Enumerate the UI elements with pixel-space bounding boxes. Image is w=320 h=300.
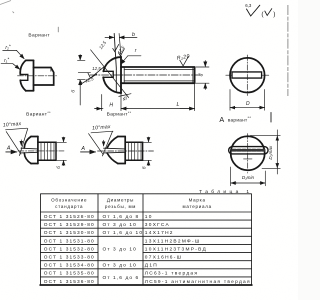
- slot rectangle: [232, 72, 262, 78]
- stub thread lines: [128, 142, 141, 160]
- col 2 rows: [103, 214, 144, 281]
- dimension b (slot width): [105, 36, 137, 38]
- stray tick: [57, 27, 59, 32]
- head front view after test (circle 2): [229, 130, 281, 186]
- r leader arrow: [121, 56, 128, 65]
- header underline: [41, 211, 252, 213]
- circle outline: [231, 136, 265, 170]
- thread start line: [123, 67, 125, 83]
- stub outline: [125, 142, 142, 160]
- centerline main axis: [90, 74, 200, 76]
- roughness callout 12,5 on dome: [80, 74, 97, 84]
- stray exclamation tick: [270, 113, 272, 123]
- dimension line H and L: [95, 108, 195, 110]
- dome arcs: [107, 137, 118, 164]
- stub outline: [34, 68, 54, 86]
- Table grid: [40, 194, 252, 285]
- head bottom edge: [26, 90, 34, 92]
- row lines full: [41, 220, 252, 269]
- shank outline: [121, 67, 195, 83]
- head dome arc lower: [103, 77, 121, 93]
- centerline: [18, 75, 57, 77]
- stub outline: [38, 142, 56, 160]
- roughness callout 12,5 on slot bottom: [78, 66, 104, 78]
- check mark on slot line right: [118, 49, 124, 56]
- stub thread lines: [41, 142, 54, 160]
- 10°max underline: [91, 131, 113, 133]
- L extension at end: [194, 83, 196, 110]
- head face: [33, 60, 35, 90]
- dimension H extension: [101, 95, 103, 111]
- Rz20 leader arrow: [180, 56, 189, 66]
- head top edge: [26, 59, 34, 61]
- angle line B: [19, 128, 27, 155]
- Table text: [44, 198, 251, 285]
- vertical centerline: [247, 134, 249, 173]
- stub end inner line: [50, 68, 52, 72]
- horizontal centerline stubs: [226, 74, 269, 76]
- angle line B: [102, 131, 112, 156]
- head top and bottom edges: [118, 137, 125, 164]
- scan artifact vertical line right: [287, 5, 289, 96]
- small arrow to slot mouth: [20, 140, 22, 146]
- view arrow: [6, 151, 17, 153]
- head face: [124, 137, 126, 164]
- 45 deg short line: [119, 94, 131, 97]
- column lines: [98, 194, 143, 285]
- centerline: [98, 150, 154, 152]
- head dome arc upper: [103, 57, 121, 71]
- r2 leader arrow: [17, 50, 25, 58]
- D2max dimension line: [276, 130, 278, 174]
- slot through line: [114, 34, 116, 93]
- D1min extensions: [231, 167, 266, 186]
- 45 deg chamfer diagonal: [91, 50, 129, 98]
- angle line A: [6, 132, 21, 155]
- shank end chamfer: [192, 67, 194, 83]
- r1 leader shelf: [1, 63, 13, 65]
- small vertical dimension at left of head: [78, 55, 86, 105]
- bottom-left variant view 1: [3, 111, 67, 169]
- check mark on slot line left: [113, 44, 119, 51]
- stub diameter dimension: [57, 142, 66, 160]
- scan artifact top-left corner: [0, 1, 11, 5]
- surface finish note top right: [245, 3, 275, 18]
- col 1 rows: [44, 214, 95, 285]
- row lines partial col1 and col3: [41, 244, 252, 277]
- D1min dimension line: [231, 182, 266, 184]
- face extension line up and down: [119, 34, 121, 111]
- H arrows: [95, 108, 102, 110]
- r1 leader arrow: [13, 64, 20, 70]
- bottom-left variant view 2: [80, 111, 153, 169]
- D dimension extensions: [230, 90, 265, 111]
- angle line A: [89, 134, 104, 155]
- centerline: [18, 150, 64, 152]
- head face line: [120, 57, 122, 93]
- dome arc upper: [20, 60, 26, 74]
- head face: [37, 137, 39, 164]
- D2max extensions: [251, 135, 281, 168]
- r leader shelf: [128, 55, 141, 57]
- scan noise overlay: [0, 0, 1, 1]
- small arrow to slot mouth: [103, 140, 105, 146]
- slot band outline: [229, 147, 268, 154]
- vertical centerline: [246, 55, 248, 96]
- D dimension line: [230, 107, 265, 109]
- r2 leader shelf: [3, 49, 17, 51]
- dome arc lower: [20, 80, 26, 91]
- horizontal center dash: [244, 158, 253, 160]
- stub diameter dimension: [143, 142, 151, 160]
- slot notch: [20, 74, 28, 80]
- thread minor diameter lines: [124, 69, 194, 81]
- top-left variant view: [1, 27, 58, 91]
- big check symbol: [247, 5, 260, 16]
- main view: screw side elevation: [90, 34, 200, 111]
- L arrows: [180, 108, 194, 110]
- slot lines flared: [104, 148, 126, 153]
- dome arcs: [24, 137, 31, 164]
- outer border: [41, 194, 252, 285]
- view arrow: [81, 151, 96, 153]
- 10°max underline: [6, 128, 28, 130]
- head top and bottom edges: [31, 137, 38, 164]
- slot notch on dome: [103, 71, 113, 77]
- dimension d at shank end: [196, 61, 209, 90]
- small check symbol: [265, 9, 272, 16]
- head front view A (circle 1): [219, 55, 271, 124]
- slot band hatch fill: [233, 149, 264, 152]
- slot lines flared: [21, 148, 38, 153]
- col 3 rows: [145, 214, 251, 285]
- bottom border thick: [40, 284, 252, 286]
- circle outline: [230, 58, 265, 93]
